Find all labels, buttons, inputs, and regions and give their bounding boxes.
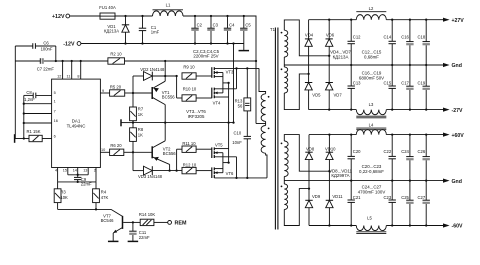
label C12..C15 — [362, 50, 382, 60]
wire Gnd rail 27V — [284, 64, 443, 66]
capacitor C18 — [418, 20, 430, 65]
wire R11 rise — [176, 149, 178, 170]
svg-text:R6 20: R6 20 — [110, 143, 122, 148]
svg-text:VD3 1N4148: VD3 1N4148 — [138, 174, 163, 179]
capacitor C24 — [401, 135, 413, 181]
svg-text:BC546: BC546 — [101, 218, 114, 223]
svg-text:VT6: VT6 — [226, 171, 234, 176]
svg-text:C25: C25 — [401, 195, 409, 200]
svg-text:TL494NC: TL494NC — [67, 124, 86, 129]
resistor R2 10 — [108, 51, 125, 64]
svg-text:VD9: VD9 — [312, 194, 321, 199]
svg-text:КД213А: КД213А — [333, 54, 349, 59]
svg-text:14: 14 — [73, 169, 77, 173]
terminal -12V — [63, 42, 81, 48]
resistor R14 10K — [133, 212, 168, 225]
T1 secondary winding 4 — [281, 184, 288, 210]
T1 secondary winding 1 — [281, 30, 288, 57]
svg-text:C24: C24 — [401, 149, 409, 154]
pin 6 and resistor R1 15K — [15, 129, 56, 143]
capacitor C9 22mF — [74, 175, 92, 187]
pin 1 — [24, 100, 56, 104]
capacitor C7 22mF — [15, 58, 56, 71]
svg-text:R12 10: R12 10 — [183, 162, 197, 167]
svg-text:VD4: VD4 — [305, 33, 314, 38]
svg-text:L4: L4 — [369, 122, 374, 127]
svg-text:C20: C20 — [353, 149, 361, 154]
T1 secondary tap 60V — [283, 177, 285, 185]
svg-text:R11 10: R11 10 — [182, 141, 196, 146]
wire +60V rail — [309, 133, 443, 135]
svg-text:+60V: +60V — [452, 133, 465, 139]
pin 14 — [73, 168, 78, 175]
inductor L3 — [356, 102, 386, 118]
diode VD10 — [325, 135, 336, 201]
wire R3-R4 tie — [58, 208, 111, 210]
capacitor C3 — [207, 16, 218, 44]
svg-text:5: 5 — [54, 91, 56, 95]
svg-text:10K: 10K — [60, 195, 68, 200]
label VD8..VD11 — [329, 168, 352, 178]
wire VT4 drain link — [235, 67, 237, 89]
capacitor C5 — [240, 16, 251, 44]
svg-text:VT5: VT5 — [215, 143, 223, 148]
wire ground return — [228, 83, 230, 163]
wire +12V to fuse — [70, 15, 100, 17]
capacitor C21 — [348, 181, 362, 226]
transistor VT3 — [212, 67, 259, 78]
wire source bus bottom — [223, 153, 230, 173]
capacitor C4 — [224, 16, 235, 44]
label C24..C27 — [358, 185, 386, 195]
diode VD7 — [326, 83, 343, 110]
capacitor C25 — [401, 181, 413, 226]
pin 13 — [83, 168, 88, 175]
wire -12V rail — [81, 42, 244, 44]
pin 2 — [94, 168, 96, 182]
T1 primary winding 2 — [261, 126, 269, 154]
wire pins 15-14-13 — [68, 174, 88, 176]
svg-text:8: 8 — [77, 75, 79, 79]
wire VT1 emitter to supply — [164, 61, 166, 76]
capacitor C2 — [191, 16, 202, 44]
capacitor C11 22mF — [129, 221, 150, 241]
inductor L4 — [356, 122, 386, 134]
wire X2 27V — [284, 73, 309, 110]
inductor L2 — [356, 6, 386, 20]
capacitor C17 — [401, 65, 413, 110]
svg-text:R10 10: R10 10 — [183, 86, 197, 91]
svg-text:VD5: VD5 — [312, 92, 321, 97]
diode VD8 — [305, 135, 315, 201]
output Gnd 27V — [443, 63, 462, 69]
wire X1 27V — [284, 20, 330, 57]
svg-text:4700mF 100V: 4700mF 100V — [358, 189, 386, 194]
svg-text:C3: C3 — [213, 22, 219, 27]
resistor R3 10K — [54, 182, 68, 210]
svg-text:C7 22mF: C7 22mF — [37, 67, 55, 72]
resistor R13 56 — [235, 68, 251, 136]
wire -12V drop — [233, 44, 235, 123]
node A junction — [132, 76, 134, 94]
svg-text:C16: C16 — [401, 34, 409, 39]
ground C11 — [128, 240, 138, 242]
wire VT5 drain link — [235, 157, 237, 179]
wire ground bus left — [14, 46, 16, 139]
capacitor C6 100nF — [15, 40, 56, 61]
inductor L1 — [153, 2, 184, 16]
svg-text:13: 13 — [83, 169, 87, 173]
T1 core — [275, 28, 278, 230]
wire primary bottom riser — [266, 153, 267, 178]
svg-text:12: 12 — [57, 75, 61, 79]
capacitor C27 — [418, 181, 430, 226]
pin 10 and resistor R6 20 — [100, 143, 133, 156]
svg-text:L5: L5 — [367, 215, 372, 220]
svg-text:1mF: 1mF — [151, 30, 160, 35]
svg-text:VD8: VD8 — [306, 146, 315, 151]
diode VD6 — [326, 20, 335, 83]
capacitor C19 — [418, 65, 430, 110]
transistor VT4 — [212, 88, 237, 106]
wire X2 60V — [284, 187, 310, 225]
transistor VT2 BC556 — [133, 123, 176, 171]
T1 secondary winding 2 — [281, 67, 288, 93]
svg-text:10nF: 10nF — [232, 140, 242, 145]
T1 primary center tap — [265, 121, 267, 125]
svg-text:L1: L1 — [166, 2, 171, 7]
svg-text:+12V: +12V — [52, 14, 65, 20]
svg-text:2200mF 25V: 2200mF 25V — [193, 54, 218, 59]
svg-text:КД213А: КД213А — [104, 28, 119, 33]
svg-text:0,68mF: 0,68mF — [364, 54, 379, 59]
svg-text:1K: 1K — [138, 132, 143, 137]
wire +12V rail — [115, 15, 256, 124]
wire +27V rail — [309, 19, 443, 21]
svg-text:11: 11 — [67, 75, 71, 79]
svg-text:C12: C12 — [353, 34, 361, 39]
svg-text:C14: C14 — [384, 34, 392, 39]
wire R10 drop — [176, 76, 178, 98]
wire X1 60V — [284, 135, 330, 173]
pin 15 — [63, 168, 68, 175]
IC DA1 TL494NC — [52, 79, 101, 167]
svg-text:R2 10: R2 10 — [110, 51, 122, 56]
diode VD9 — [305, 194, 321, 226]
svg-text:Gnd: Gnd — [452, 179, 462, 185]
svg-text:Gnd: Gnd — [452, 63, 462, 69]
capacitor C20 — [348, 135, 362, 181]
transistor VT5 — [212, 143, 237, 158]
resistor R8 1K — [130, 123, 144, 153]
diode VD2 1N4148 — [133, 67, 178, 80]
wire ground line — [132, 121, 235, 123]
capacitor C1 — [139, 16, 160, 44]
svg-text:BC556: BC556 — [163, 151, 176, 156]
capacitor C13 — [348, 65, 362, 110]
wire bottom bus — [58, 181, 96, 183]
svg-text:-60V: -60V — [452, 224, 463, 230]
svg-text:VT3: VT3 — [226, 69, 234, 74]
svg-text:C22: C22 — [384, 149, 392, 154]
svg-text:C5: C5 — [245, 22, 251, 27]
resistor R9 10 — [182, 64, 212, 79]
fuse FU1 40A — [99, 5, 116, 19]
svg-text:C10: C10 — [234, 130, 242, 135]
svg-text:100nF: 100nF — [41, 47, 53, 52]
svg-text:R5 20: R5 20 — [110, 85, 122, 90]
label VT3..VT6 IRF3205 — [186, 109, 206, 119]
pin 16 — [24, 119, 58, 123]
node B junction — [132, 151, 134, 170]
resistor R4 47K — [93, 182, 109, 210]
svg-text:IRF3205: IRF3205 — [188, 114, 205, 119]
wire Gnd rail 60V — [284, 179, 443, 181]
wire IC supply line — [55, 60, 258, 62]
ground under C5 — [239, 44, 250, 51]
svg-text:C2: C2 — [197, 22, 203, 27]
svg-text:C26: C26 — [418, 149, 426, 154]
wire +12V feed to tap — [256, 123, 266, 125]
pin 8 — [77, 61, 80, 79]
svg-text:L3: L3 — [369, 102, 374, 107]
wire primary top riser — [246, 67, 265, 94]
capacitor C22 — [384, 135, 396, 181]
svg-text:C6: C6 — [43, 40, 49, 45]
pin 7 — [24, 109, 56, 113]
label C20..C23 — [359, 164, 384, 174]
pin 11 — [67, 61, 72, 79]
svg-text:R14 10K: R14 10K — [139, 212, 156, 217]
pin 5 and capacitor C8 — [24, 90, 56, 102]
svg-text:КД2997А: КД2997А — [331, 173, 349, 178]
terminal REM — [168, 221, 187, 227]
resistor R11 10 — [177, 141, 212, 152]
svg-text:VD10: VD10 — [325, 146, 336, 151]
svg-text:0,22-0,68mF: 0,22-0,68mF — [359, 169, 384, 174]
svg-text:C19: C19 — [418, 80, 426, 85]
wire source bus top — [223, 73, 230, 93]
svg-text:4: 4 — [55, 169, 57, 173]
svg-text:VT4: VT4 — [213, 101, 221, 106]
svg-text:10: 10 — [101, 148, 105, 152]
transistor VT1 BC556 — [133, 76, 175, 123]
svg-text:C23: C23 — [384, 195, 392, 200]
svg-text:2: 2 — [94, 169, 96, 173]
wire -60V rail — [309, 224, 443, 226]
resistor R10 10 — [177, 86, 212, 101]
diode VD5 — [305, 83, 321, 110]
svg-text:VD7: VD7 — [334, 92, 343, 97]
capacitor C15 — [384, 65, 396, 110]
capacitor C26 — [418, 135, 430, 181]
output +27V — [443, 18, 464, 24]
diode VD1 — [104, 16, 129, 44]
svg-text:7: 7 — [54, 109, 56, 113]
svg-text:REM: REM — [175, 221, 187, 227]
svg-text:-12V: -12V — [63, 42, 75, 48]
svg-text:L2: L2 — [369, 6, 374, 11]
transistor VT6 — [212, 167, 234, 178]
transistor VT7 BC546 — [101, 209, 133, 241]
svg-text:VD6: VD6 — [326, 33, 335, 38]
svg-text:C15: C15 — [384, 80, 392, 85]
pin 4 — [55, 168, 58, 182]
inductor L5 — [356, 215, 386, 233]
wire -27V rail — [309, 108, 443, 110]
svg-text:T1: T1 — [270, 27, 276, 32]
resistor R12 10 — [182, 162, 212, 173]
pin 12 — [57, 61, 62, 79]
label VD4..VD7 — [330, 50, 351, 60]
svg-text:1: 1 — [54, 100, 56, 104]
diode VD11 — [326, 194, 344, 226]
svg-text:VD11: VD11 — [332, 194, 343, 199]
svg-text:16: 16 — [54, 119, 58, 123]
svg-text:+27V: +27V — [452, 18, 465, 24]
svg-text:56: 56 — [238, 104, 243, 109]
svg-text:C18: C18 — [418, 34, 426, 39]
T1 secondary tap 27V — [283, 57, 285, 67]
output +60V — [443, 133, 464, 139]
svg-text:BC556: BC556 — [162, 95, 175, 100]
svg-text:6: 6 — [54, 134, 56, 138]
output -27V — [443, 108, 463, 114]
diode VD3 1N4148 — [133, 166, 182, 179]
resistor R7 1K — [130, 93, 144, 123]
svg-text:-27V: -27V — [452, 108, 463, 114]
svg-text:C17: C17 — [401, 80, 409, 85]
capacitor C12 — [348, 20, 362, 65]
diode VD4 — [305, 20, 314, 83]
capacitor C10 10nF — [232, 130, 251, 178]
ground bar driver — [121, 119, 133, 126]
output -60V — [443, 223, 463, 229]
svg-text:1K: 1K — [138, 112, 143, 117]
svg-text:47K: 47K — [101, 195, 109, 200]
svg-text:R1 15K: R1 15K — [27, 129, 41, 134]
ground bus pins — [23, 95, 25, 139]
capacitor C23 — [384, 181, 396, 226]
terminal +12V — [52, 14, 70, 20]
T1 primary winding 1 — [261, 94, 269, 122]
svg-text:C8: C8 — [26, 90, 32, 95]
ground VT7 emitter — [108, 240, 119, 242]
svg-text:C13: C13 — [353, 80, 361, 85]
label C16..C19 — [359, 71, 384, 81]
svg-text:R9 10: R9 10 — [183, 64, 195, 69]
svg-text:22mF: 22mF — [139, 235, 150, 240]
svg-text:C21: C21 — [353, 195, 361, 200]
T1 secondary winding 3 — [281, 141, 289, 177]
svg-text:15: 15 — [63, 169, 67, 173]
pin 9 and resistor R5 20 — [100, 85, 133, 97]
wire drain line bottom — [214, 177, 267, 179]
svg-text:C4: C4 — [229, 22, 235, 27]
capacitor C16 — [401, 20, 413, 65]
svg-text:FU1 40A: FU1 40A — [99, 5, 116, 10]
output Gnd 60V — [443, 179, 462, 185]
transformer T1 label — [270, 27, 276, 32]
svg-text:C27: C27 — [418, 195, 426, 200]
svg-text:6800mF 50V: 6800mF 50V — [359, 75, 384, 80]
capacitor C14 — [384, 20, 396, 65]
label C2..C5 value — [193, 49, 220, 59]
